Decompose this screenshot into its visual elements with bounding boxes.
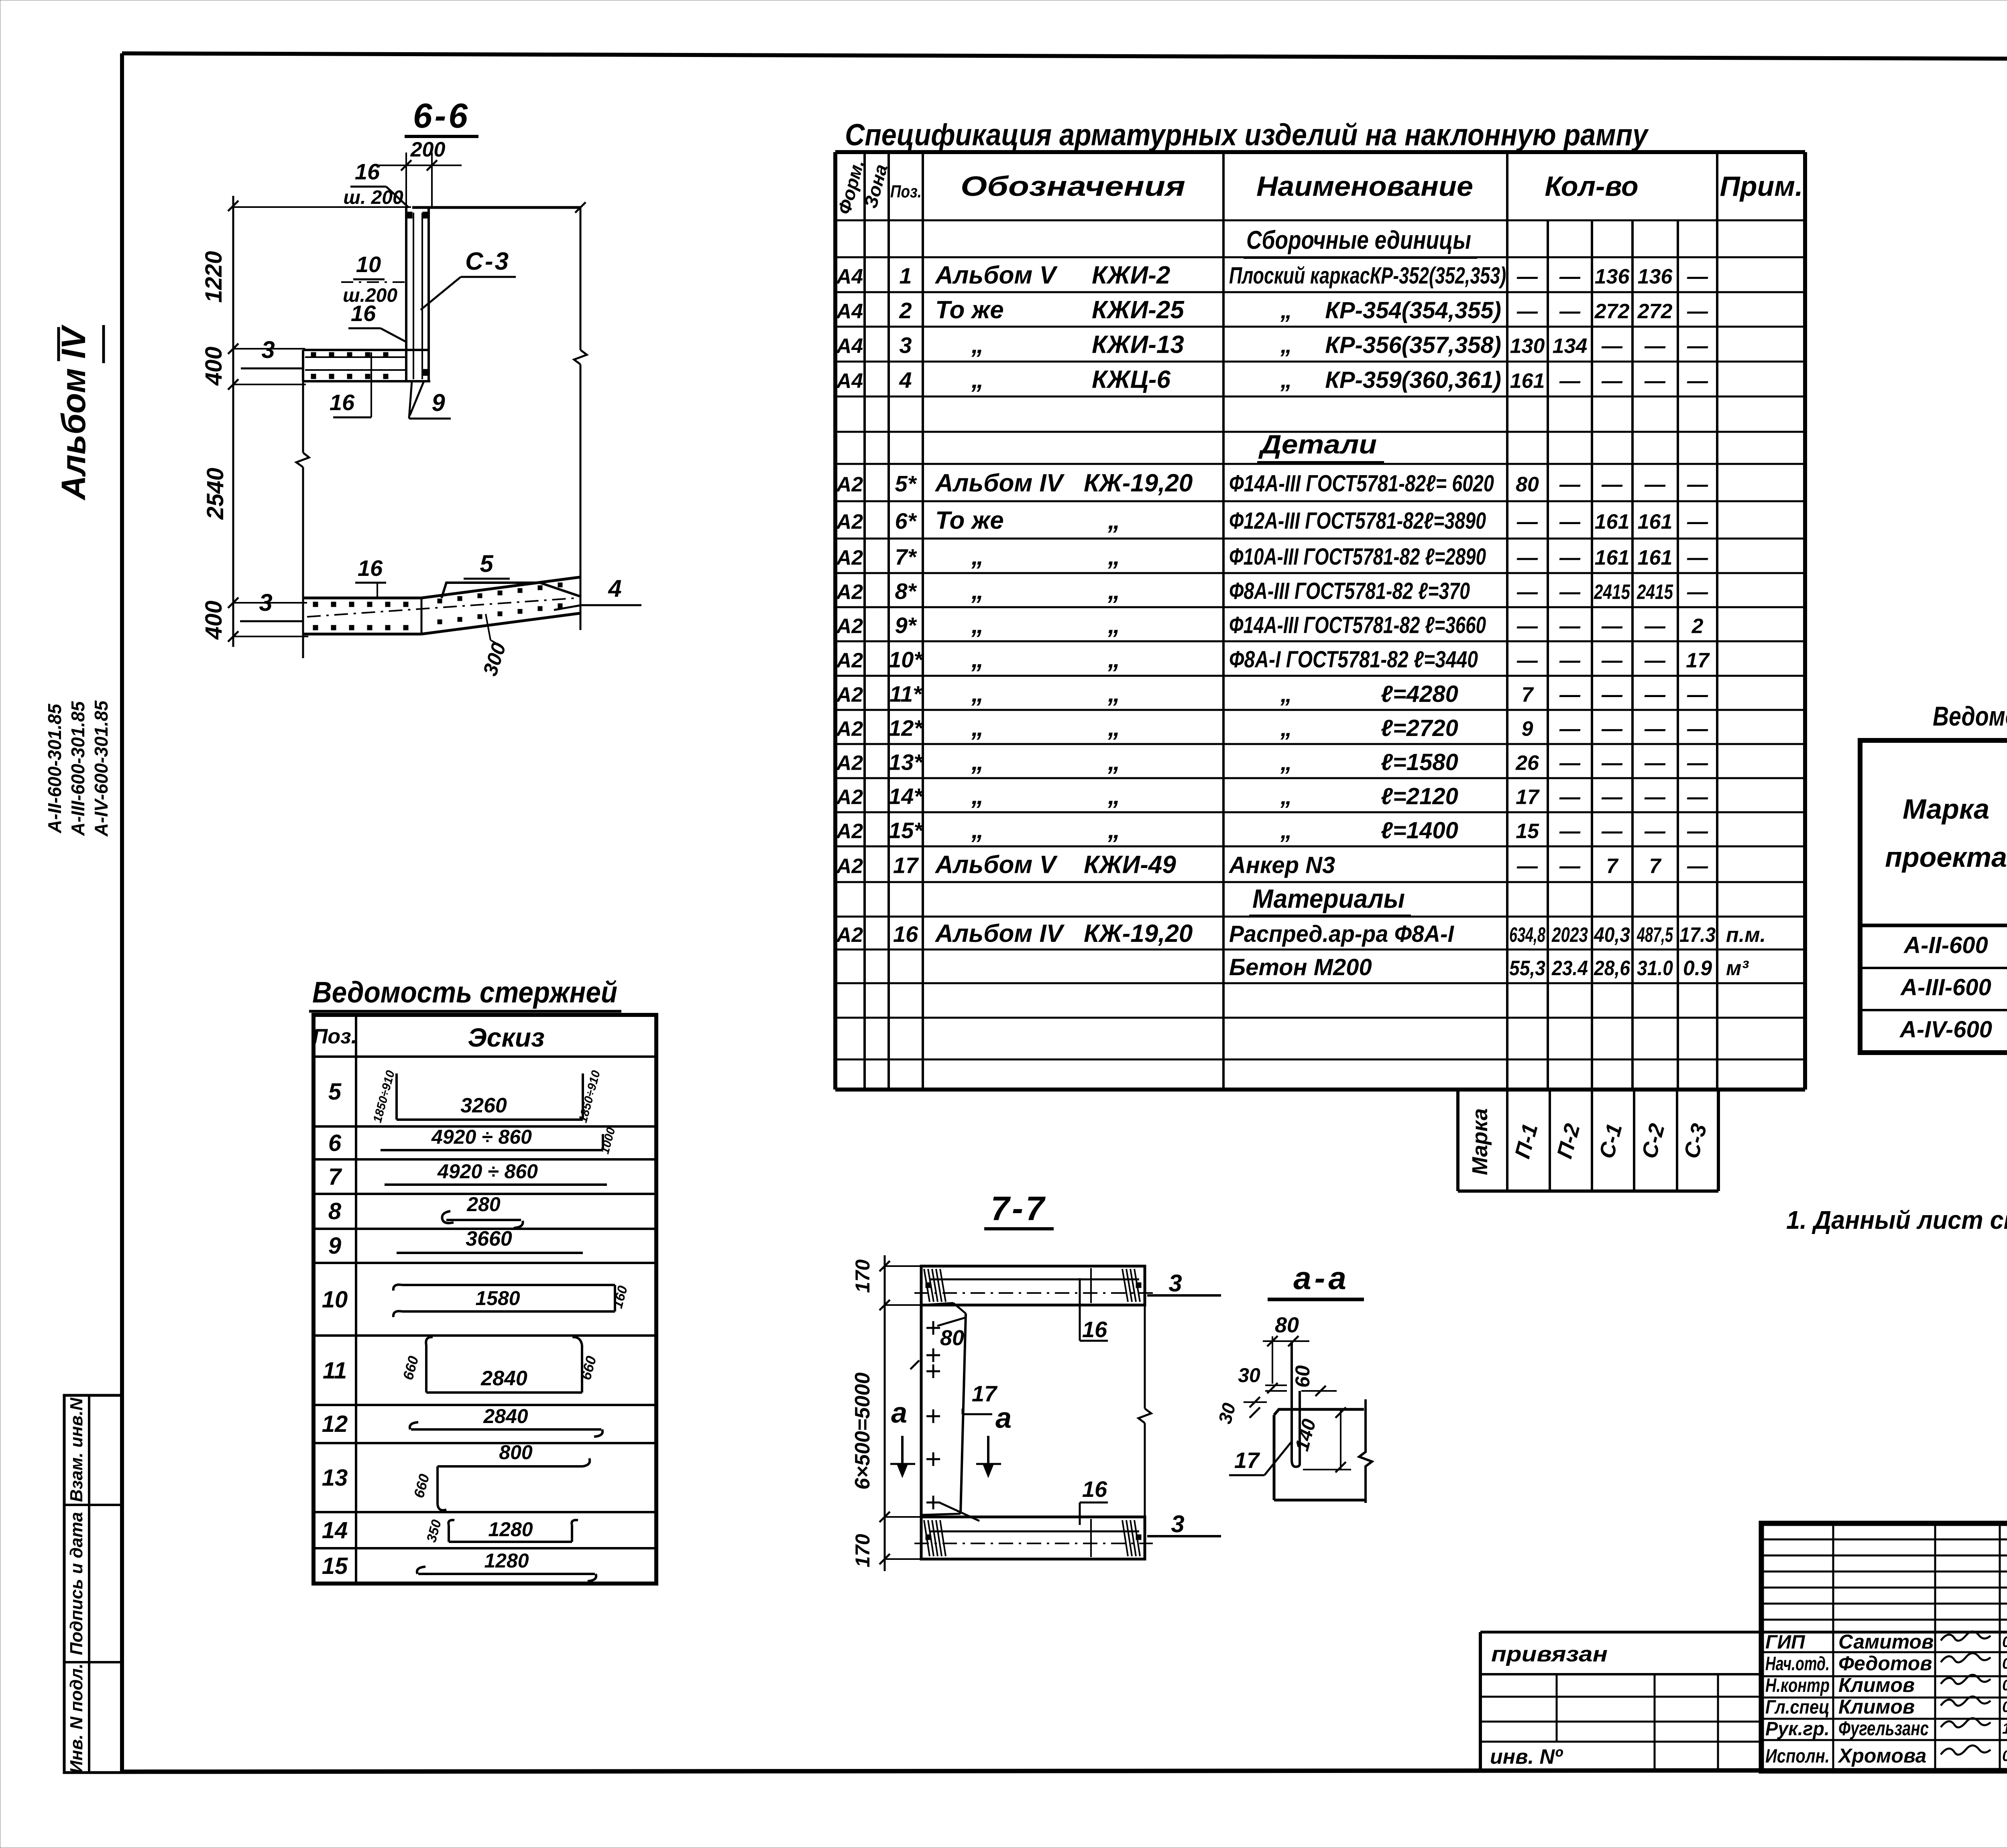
svg-text:1220: 1220 xyxy=(201,251,227,303)
plank element 5 on ramp xyxy=(442,550,581,598)
right break line of section 6-6 xyxy=(574,202,587,630)
svg-text:17.3: 17.3 xyxy=(1679,923,1716,947)
svg-text:—: — xyxy=(1559,473,1581,496)
svg-text:Поз.: Поз. xyxy=(890,182,922,201)
steel row А-III-600 xyxy=(1900,974,2007,1000)
svg-text:40,3: 40,3 xyxy=(1594,923,1630,947)
svg-text:Ведомость расхода стали, кг: Ведомость расхода стали, кг xyxy=(1933,701,2007,732)
svg-text:—: — xyxy=(1559,615,1581,638)
svg-text:15: 15 xyxy=(1516,820,1539,843)
svg-text:ℓ=2120: ℓ=2120 xyxy=(1381,783,1458,809)
spec row 7* xyxy=(836,543,1708,570)
svg-text:17: 17 xyxy=(972,1381,998,1406)
svg-text:—: — xyxy=(1687,752,1708,775)
svg-text:06.84: 06.84 xyxy=(2002,1655,2007,1672)
svg-text:„: „ xyxy=(1280,332,1292,358)
а-а dim 30 upper xyxy=(1238,1364,1287,1393)
а-а dim 140 xyxy=(1291,1407,1351,1472)
svg-text:—: — xyxy=(1559,510,1581,534)
svg-text:„: „ xyxy=(971,748,984,776)
svg-text:1. Данный лист смотреть совм: 1. Данный лист смотреть совместно с лист… xyxy=(1786,1206,2007,1234)
spec row 12* xyxy=(836,714,1708,742)
label С-3 with leader xyxy=(421,248,516,310)
spec row 2 xyxy=(836,296,1708,324)
svg-text:Фугельзанс: Фугельзанс xyxy=(1838,1717,1929,1740)
svg-text:Альбом V: Альбом V xyxy=(934,851,1058,879)
svg-text:23.4: 23.4 xyxy=(1551,957,1588,980)
svg-text:487,5: 487,5 xyxy=(1637,923,1673,947)
rod sketch 8 xyxy=(442,1193,523,1228)
svg-text:Альбом V: Альбом V xyxy=(934,262,1058,289)
svg-text:Альбом IV: Альбом IV xyxy=(934,470,1065,497)
svg-text:А2: А2 xyxy=(836,855,863,878)
rod sketch 6 xyxy=(381,1126,618,1155)
svg-text:„: „ xyxy=(971,645,984,673)
svg-text:4920 ÷ 860: 4920 ÷ 860 xyxy=(437,1160,538,1183)
rods list title xyxy=(309,976,621,1011)
svg-text:а: а xyxy=(995,1402,1012,1434)
svg-text:—: — xyxy=(1687,855,1708,878)
svg-text:А4: А4 xyxy=(836,370,863,393)
svg-text:15*: 15* xyxy=(889,818,923,843)
svg-text:п.м.: п.м. xyxy=(1726,923,1766,947)
svg-text:2: 2 xyxy=(899,298,912,323)
svg-text:13: 13 xyxy=(322,1465,348,1491)
label 16 ш.200 (top) xyxy=(343,159,409,208)
а-а block outline xyxy=(1274,1399,1372,1503)
марка strip below table xyxy=(1458,1090,1718,1191)
svg-text:КР-356(357,358): КР-356(357,358) xyxy=(1325,332,1501,358)
svg-text:11*: 11* xyxy=(890,681,922,707)
label 16 (mid) xyxy=(348,301,406,342)
svg-text:9*: 9* xyxy=(895,613,917,638)
svg-text:А-II-600-301.85: А-II-600-301.85 xyxy=(44,703,65,834)
svg-text:4: 4 xyxy=(899,368,912,393)
svg-text:130: 130 xyxy=(1510,335,1545,358)
section 6-6 title xyxy=(405,97,478,136)
svg-text:8: 8 xyxy=(328,1198,342,1224)
а-а dim 30 rotated xyxy=(1214,1397,1267,1426)
heading Сборочные единицы xyxy=(1244,226,1477,258)
svg-text:280: 280 xyxy=(466,1193,501,1216)
7-7 cut marks а-а xyxy=(890,1397,1012,1476)
svg-text:КР-359(360,361): КР-359(360,361) xyxy=(1325,367,1501,393)
rod sketch 14 xyxy=(424,1518,578,1544)
svg-text:1: 1 xyxy=(899,263,912,289)
svg-text:А2: А2 xyxy=(836,683,863,707)
svg-text:—: — xyxy=(1644,786,1666,809)
svg-text:„: „ xyxy=(971,577,984,605)
svg-text:А2: А2 xyxy=(836,615,863,638)
svg-text:—: — xyxy=(1559,581,1581,604)
привязан block xyxy=(1480,1632,1761,1771)
svg-text:Обозначения: Обозначения xyxy=(961,171,1185,202)
svg-text:136: 136 xyxy=(1595,265,1630,289)
svg-text:То же: То же xyxy=(935,507,1004,535)
label 3 (upper) xyxy=(241,336,303,368)
svg-text:400: 400 xyxy=(201,347,227,386)
spec row 16 xyxy=(836,920,1766,947)
svg-text:17: 17 xyxy=(893,853,919,878)
svg-text:проекта: проекта xyxy=(1885,842,2007,873)
svg-text:—: — xyxy=(1559,752,1581,775)
svg-text:—: — xyxy=(1687,335,1708,358)
svg-text:Распред.ар-ра Ф8А-I: Распред.ар-ра Ф8А-I xyxy=(1229,921,1455,947)
svg-text:—: — xyxy=(1516,300,1538,323)
svg-text:Н.контр: Н.контр xyxy=(1765,1675,1830,1696)
svg-text:—: — xyxy=(1601,786,1623,809)
spec row 17 xyxy=(836,851,1708,879)
svg-text:„: „ xyxy=(971,782,984,810)
rods table grid xyxy=(313,1015,656,1584)
svg-text:А-II-600: А-II-600 xyxy=(1903,932,1988,958)
svg-text:14*: 14* xyxy=(889,784,923,809)
7-7 left panel xyxy=(921,1303,979,1521)
svg-text:А2: А2 xyxy=(836,510,863,534)
svg-text:инв. Nº: инв. Nº xyxy=(1490,1745,1563,1769)
svg-text:2840: 2840 xyxy=(480,1367,527,1390)
wall top edge line xyxy=(412,206,580,209)
svg-text:—: — xyxy=(1601,370,1623,393)
svg-text:А2: А2 xyxy=(836,581,863,604)
svg-text:„: „ xyxy=(1107,611,1120,639)
svg-text:17: 17 xyxy=(1686,649,1710,672)
svg-text:400: 400 xyxy=(201,601,227,640)
svg-text:4920 ÷ 860: 4920 ÷ 860 xyxy=(431,1126,532,1148)
svg-text:ℓ=1580: ℓ=1580 xyxy=(1381,749,1458,775)
svg-text:—: — xyxy=(1559,300,1581,323)
svg-text:А2: А2 xyxy=(836,820,863,843)
svg-text:161: 161 xyxy=(1638,510,1673,534)
svg-text:„: „ xyxy=(971,543,984,570)
svg-text:—: — xyxy=(1516,581,1538,604)
svg-text:634,8: 634,8 xyxy=(1509,923,1545,947)
svg-text:А2: А2 xyxy=(836,473,863,496)
steel table grid xyxy=(1860,740,2007,1053)
svg-text:Федотов: Федотов xyxy=(1838,1652,1932,1675)
spec row 5* xyxy=(836,470,1708,497)
svg-text:0.9: 0.9 xyxy=(1683,957,1712,980)
svg-text:16: 16 xyxy=(358,555,383,581)
title block inner grid xyxy=(1761,1523,2007,1771)
label 4 with leader xyxy=(554,575,641,610)
svg-text:7*: 7* xyxy=(895,544,917,569)
svg-text:Климов: Климов xyxy=(1838,1674,1915,1696)
svg-text:12: 12 xyxy=(322,1411,348,1437)
spec row 11* xyxy=(836,680,1708,707)
svg-text:—: — xyxy=(1601,752,1623,775)
svg-text:—: — xyxy=(1601,820,1623,843)
svg-text:16.84: 16.84 xyxy=(2002,1720,2007,1737)
7-7 label 16 lower xyxy=(1080,1476,1108,1525)
svg-text:30: 30 xyxy=(1238,1364,1260,1387)
svg-text:16: 16 xyxy=(1082,1476,1107,1502)
svg-text:16: 16 xyxy=(1082,1317,1107,1342)
svg-text:6*: 6* xyxy=(895,508,917,534)
svg-text:80: 80 xyxy=(940,1326,964,1350)
svg-text:А-III-600-301.85: А-III-600-301.85 xyxy=(67,701,88,836)
svg-text:То же: То же xyxy=(935,296,1004,324)
7-7 label 3 lower xyxy=(1147,1511,1221,1537)
svg-text:800: 800 xyxy=(499,1441,533,1464)
svg-text:—: — xyxy=(1687,265,1708,289)
svg-text:06.84: 06.84 xyxy=(2002,1634,2007,1651)
label 16 (below footing) xyxy=(330,352,371,417)
svg-text:—: — xyxy=(1601,335,1623,358)
svg-text:Ф8А-I ГОСТ5781-82 ℓ=3440: Ф8А-I ГОСТ5781-82 ℓ=3440 xyxy=(1229,646,1478,673)
rod sketch 15 xyxy=(417,1549,596,1581)
rod sketch 9 xyxy=(397,1227,583,1253)
svg-text:А4: А4 xyxy=(836,265,863,289)
7-7 left dimension chain xyxy=(851,1255,920,1571)
svg-text:16: 16 xyxy=(330,390,355,415)
rod sketch 12 xyxy=(410,1405,603,1437)
svg-text:161: 161 xyxy=(1595,510,1630,534)
svg-text:12*: 12* xyxy=(889,716,923,741)
7-7 bottom slab xyxy=(914,1517,1153,1559)
spec row 9* xyxy=(836,611,1704,639)
svg-text:Гл.спец: Гл.спец xyxy=(1765,1697,1830,1718)
а-а hairpin bar 17 xyxy=(1292,1341,1300,1467)
spec row b xyxy=(1229,954,1749,980)
svg-text:„: „ xyxy=(971,816,984,844)
svg-text:—: — xyxy=(1644,752,1666,775)
steel table header xyxy=(1885,746,2007,921)
svg-text:—: — xyxy=(1559,786,1581,809)
7-7 label 3 upper xyxy=(1147,1270,1221,1297)
svg-text:80: 80 xyxy=(1516,473,1539,496)
detail а-а title xyxy=(1268,1260,1364,1299)
svg-text:11: 11 xyxy=(323,1358,347,1384)
svg-text:привязан: привязан xyxy=(1491,1642,1608,1666)
svg-text:—: — xyxy=(1516,855,1538,878)
7-7 label 16 upper xyxy=(1080,1278,1108,1342)
svg-text:—: — xyxy=(1559,683,1581,707)
svg-text:60: 60 xyxy=(1291,1365,1314,1388)
lower ramp section xyxy=(303,577,580,634)
svg-text:9: 9 xyxy=(1522,718,1533,741)
svg-text:9: 9 xyxy=(432,389,445,416)
svg-text:134: 134 xyxy=(1553,335,1588,358)
svg-text:80: 80 xyxy=(1275,1313,1299,1337)
svg-text:„: „ xyxy=(1107,577,1120,605)
svg-text:Инв. N подл.: Инв. N подл. xyxy=(67,1663,86,1773)
svg-text:„: „ xyxy=(1107,782,1120,810)
svg-text:6: 6 xyxy=(328,1130,342,1156)
svg-text:м³: м³ xyxy=(1726,957,1749,980)
svg-text:ℓ=4280: ℓ=4280 xyxy=(1381,681,1458,707)
svg-text:—: — xyxy=(1601,615,1623,638)
section 7-7 title xyxy=(984,1189,1054,1229)
rod sketch 7 xyxy=(385,1160,607,1185)
svg-text:2540: 2540 xyxy=(202,468,228,520)
svg-text:6×500=5000: 6×500=5000 xyxy=(851,1372,874,1490)
svg-text:Анкер N3: Анкер N3 xyxy=(1228,852,1335,878)
specification table header xyxy=(834,157,1803,216)
svg-text:Ф10А-III ГОСТ5781-82 ℓ=2890: Ф10А-III ГОСТ5781-82 ℓ=2890 xyxy=(1229,544,1486,570)
svg-text:Ф14А-III ГОСТ5781-82 ℓ=3660: Ф14А-III ГОСТ5781-82 ℓ=3660 xyxy=(1229,612,1486,638)
svg-text:272: 272 xyxy=(1637,300,1673,323)
svg-text:10*: 10* xyxy=(889,647,923,672)
svg-text:А2: А2 xyxy=(836,923,863,947)
svg-text:С-3: С-3 xyxy=(465,248,510,275)
svg-text:—: — xyxy=(1516,546,1538,569)
svg-text:14: 14 xyxy=(322,1517,348,1543)
rod sketch 10 xyxy=(393,1284,631,1317)
svg-text:2: 2 xyxy=(1691,615,1704,638)
svg-text:Детали: Детали xyxy=(1258,429,1377,459)
svg-text:ℓ=1400: ℓ=1400 xyxy=(1381,817,1458,844)
svg-text:„: „ xyxy=(971,714,984,742)
7-7 right edge with break xyxy=(1138,1266,1151,1559)
svg-text:55,3: 55,3 xyxy=(1509,957,1545,980)
svg-text:—: — xyxy=(1559,718,1581,741)
spec row 8* xyxy=(836,577,1708,605)
svg-text:10: 10 xyxy=(322,1287,348,1313)
svg-text:„: „ xyxy=(1107,816,1120,844)
а-а label 17 xyxy=(1229,1441,1292,1475)
svg-text:„: „ xyxy=(1107,543,1120,570)
svg-text:КЖИ-49: КЖИ-49 xyxy=(1084,851,1176,879)
svg-text:Хромова: Хромова xyxy=(1837,1744,1926,1767)
а-а dim 80 xyxy=(1263,1313,1309,1384)
svg-text:7: 7 xyxy=(1606,855,1619,878)
svg-text:13*: 13* xyxy=(889,750,923,775)
svg-text:—: — xyxy=(1644,473,1666,496)
svg-text:Ведомость стержней: Ведомость стержней xyxy=(312,976,617,1009)
svg-text:3: 3 xyxy=(1171,1511,1184,1537)
svg-text:—: — xyxy=(1516,649,1538,672)
svg-text:Кол-во: Кол-во xyxy=(1545,171,1638,202)
svg-text:2415: 2415 xyxy=(1594,581,1630,604)
svg-text:А2: А2 xyxy=(836,546,863,569)
svg-text:Климов: Климов xyxy=(1838,1696,1915,1718)
svg-text:„: „ xyxy=(1280,783,1292,809)
spec row 14* xyxy=(836,782,1708,810)
svg-text:—: — xyxy=(1644,335,1666,358)
svg-text:Прим.: Прим. xyxy=(1720,171,1803,202)
svg-text:—: — xyxy=(1516,615,1538,638)
svg-text:—: — xyxy=(1644,718,1666,741)
spec row 4 xyxy=(836,366,1708,394)
label 300 rotated xyxy=(478,614,510,679)
svg-text:—: — xyxy=(1687,683,1708,707)
svg-text:—: — xyxy=(1687,546,1708,569)
svg-text:А-III-600: А-III-600 xyxy=(1900,974,1991,1000)
svg-text:8*: 8* xyxy=(895,579,917,604)
svg-text:17: 17 xyxy=(1516,786,1540,809)
svg-text:КР-354(354,355): КР-354(354,355) xyxy=(1325,297,1501,323)
svg-text:Бетон М200: Бетон М200 xyxy=(1229,954,1372,980)
svg-text:—: — xyxy=(1559,370,1581,393)
svg-text:—: — xyxy=(1687,718,1708,741)
svg-text:Ф14А-III ГОСТ5781-82ℓ= 6020: Ф14А-III ГОСТ5781-82ℓ= 6020 xyxy=(1229,471,1494,497)
svg-text:Сборочные единицы: Сборочные единицы xyxy=(1246,226,1471,254)
svg-text:200: 200 xyxy=(410,138,446,161)
svg-text:2415: 2415 xyxy=(1637,581,1673,604)
svg-text:—: — xyxy=(1601,649,1623,672)
svg-text:а-а: а-а xyxy=(1293,1260,1350,1296)
svg-text:06.84: 06.84 xyxy=(2002,1748,2007,1765)
svg-text:136: 136 xyxy=(1638,265,1673,289)
svg-text:16: 16 xyxy=(355,159,380,184)
svg-text:„: „ xyxy=(1280,297,1292,323)
svg-text:А-IV-600: А-IV-600 xyxy=(1899,1017,1992,1043)
steel row А-IV-600 xyxy=(1899,1017,2007,1043)
svg-text:—: — xyxy=(1559,649,1581,672)
7-7 label 17 xyxy=(963,1381,998,1414)
album label "Альбом IV" xyxy=(55,325,104,501)
svg-text:—: — xyxy=(1516,265,1538,289)
svg-text:1280: 1280 xyxy=(484,1549,529,1572)
wall section (vertical) xyxy=(406,207,429,381)
upper footing section xyxy=(303,350,430,381)
svg-text:„: „ xyxy=(1280,817,1292,844)
svg-text:06.84: 06.84 xyxy=(2002,1677,2007,1694)
svg-text:Ф12А-III ГОСТ5781-82ℓ=3890: Ф12А-III ГОСТ5781-82ℓ=3890 xyxy=(1229,508,1486,534)
title block signatures xyxy=(1765,1630,2007,1767)
title block outer xyxy=(1761,1523,2007,1771)
svg-text:6-6: 6-6 xyxy=(413,97,470,135)
svg-text:—: — xyxy=(1687,300,1708,323)
svg-text:„: „ xyxy=(971,611,984,639)
svg-text:„: „ xyxy=(1280,715,1292,741)
svg-text:—: — xyxy=(1687,581,1708,604)
svg-text:16: 16 xyxy=(351,301,376,326)
svg-text:А2: А2 xyxy=(836,718,863,741)
svg-text:—: — xyxy=(1559,546,1581,569)
svg-text:3: 3 xyxy=(259,589,272,616)
svg-text:„: „ xyxy=(1107,645,1120,673)
svg-text:161: 161 xyxy=(1638,546,1673,569)
svg-text:„: „ xyxy=(1280,367,1292,393)
svg-text:Самитов: Самитов xyxy=(1838,1630,1934,1653)
label 3 (ramp) xyxy=(240,589,303,621)
spec row 3 xyxy=(836,331,1708,359)
svg-text:—: — xyxy=(1516,510,1538,534)
svg-text:3660: 3660 xyxy=(466,1227,512,1250)
svg-text:06.84: 06.84 xyxy=(2002,1699,2007,1716)
svg-text:5*: 5* xyxy=(895,471,917,496)
svg-text:—: — xyxy=(1601,718,1623,741)
svg-text:„: „ xyxy=(1107,507,1120,535)
spec row 1 xyxy=(836,262,1708,289)
svg-text:3: 3 xyxy=(899,333,912,358)
rod sketch 13 xyxy=(410,1441,590,1510)
svg-text:28,6: 28,6 xyxy=(1594,957,1630,980)
svg-text:КЖ-19,20: КЖ-19,20 xyxy=(1084,920,1193,947)
svg-text:1580: 1580 xyxy=(475,1287,520,1309)
svg-text:КЖИ-2: КЖИ-2 xyxy=(1092,262,1170,289)
svg-text:Марка: Марка xyxy=(1468,1108,1492,1175)
svg-text:А-IV-600-301.85: А-IV-600-301.85 xyxy=(91,700,112,837)
svg-text:170: 170 xyxy=(851,1534,874,1567)
svg-text:ℓ=2720: ℓ=2720 xyxy=(1381,715,1458,741)
rod sketch 5 xyxy=(371,1069,603,1124)
svg-text:3: 3 xyxy=(1168,1270,1182,1297)
svg-text:КЖИ-25: КЖИ-25 xyxy=(1092,296,1185,324)
svg-text:Марка: Марка xyxy=(1903,793,1989,825)
svg-text:7-7: 7-7 xyxy=(991,1189,1046,1227)
svg-text:Спецификация арматурных издели: Спецификация арматурных изделий на накло… xyxy=(845,118,1649,152)
specification table grid xyxy=(835,152,1805,1090)
svg-text:5: 5 xyxy=(328,1079,342,1105)
7-7 label 80 xyxy=(910,1326,964,1369)
svg-text:—: — xyxy=(1601,683,1623,707)
svg-text:А4: А4 xyxy=(836,335,863,358)
svg-text:272: 272 xyxy=(1594,300,1630,323)
svg-text:15: 15 xyxy=(322,1553,348,1579)
